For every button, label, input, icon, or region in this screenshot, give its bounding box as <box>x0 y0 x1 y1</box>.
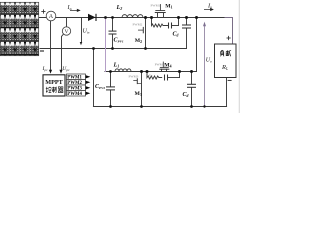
svg-text:PWM4: PWM4 <box>155 62 165 66</box>
svg-text:MPPT: MPPT <box>45 79 63 86</box>
svg-text:M4: M4 <box>164 63 171 69</box>
svg-text:Upv: Upv <box>62 66 70 72</box>
svg-text:L1: L1 <box>113 61 120 68</box>
svg-text:L2: L2 <box>116 4 123 11</box>
svg-text:Ipv: Ipv <box>42 66 48 72</box>
svg-text:PWM4: PWM4 <box>67 92 82 97</box>
svg-text:R2C2: R2C2 <box>146 73 153 78</box>
svg-text:RL: RL <box>221 64 229 71</box>
svg-text:CPV2: CPV2 <box>95 84 105 90</box>
svg-text:CPV1: CPV1 <box>114 37 124 43</box>
svg-text:PWM3: PWM3 <box>129 74 139 78</box>
svg-text:PWM1: PWM1 <box>67 75 82 80</box>
svg-text:Io: Io <box>207 3 212 10</box>
svg-text:Uo: Uo <box>206 58 212 64</box>
svg-text:Cd: Cd <box>173 32 179 38</box>
svg-text:PWM2: PWM2 <box>67 81 82 86</box>
svg-text:M1: M1 <box>165 4 172 10</box>
svg-text:Iin: Iin <box>67 5 73 11</box>
svg-text:Uin: Uin <box>83 29 90 35</box>
svg-text:PWM3: PWM3 <box>67 86 82 91</box>
svg-text:PWM2: PWM2 <box>133 23 143 27</box>
svg-text:M3: M3 <box>135 91 142 97</box>
svg-text:Cd: Cd <box>183 92 189 98</box>
svg-text:M2: M2 <box>135 38 142 44</box>
svg-text:PWM1: PWM1 <box>151 4 161 8</box>
svg-text:V: V <box>65 29 69 35</box>
